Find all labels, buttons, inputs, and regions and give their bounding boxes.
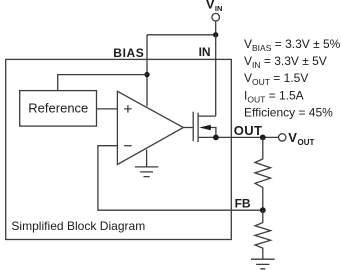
op-amp ground stub [146, 150, 148, 167]
transistor pass FET: body stub with jog to source [207, 128, 216, 138]
wire: bias feed to reference block [58, 75, 147, 91]
svg-text:FB: FB [235, 196, 251, 210]
wire: BIAS vertical into op-amp top [146, 35, 148, 107]
junction dot OUT/R1 [260, 135, 266, 141]
transistor pass FET: source stub [199, 136, 216, 138]
reference block [20, 91, 97, 127]
wire: IN vertical to FET drain [215, 35, 217, 116]
wire: reference output to op-amp + input [97, 108, 118, 110]
transistor pass FET: drain stub to IN [199, 115, 216, 117]
terminal VIN [212, 13, 220, 21]
outer box: simplified block diagram boundary [6, 59, 232, 239]
svg-text:VBIAS = 3.3V ± 5%: VBIAS = 3.3V ± 5% [244, 37, 341, 53]
resistor R1 [255, 137, 271, 210]
svg-text:VOUT = 1.5V: VOUT = 1.5V [244, 71, 308, 87]
svg-text:V: V [288, 130, 297, 145]
svg-text:OUT: OUT [234, 123, 263, 138]
resistor R2 [255, 210, 271, 259]
svg-text:V: V [206, 0, 215, 12]
transistor pass FET: gate bar [192, 112, 194, 142]
svg-text:Simplified Block Diagram: Simplified Block Diagram [11, 219, 145, 233]
wire: VIN terminal to junction [215, 21, 217, 35]
junction dot BIAS/reference feed [144, 72, 149, 77]
junction dot FET source/OUT [213, 135, 219, 141]
svg-text:BIAS: BIAS [113, 46, 144, 60]
svg-text:VIN = 3.3V ± 5V: VIN = 3.3V ± 5V [244, 54, 327, 70]
wire: BIAS horizontal [147, 34, 216, 36]
junction dot VIN/BIAS [213, 32, 218, 37]
svg-text:IOUT = 1.5A: IOUT = 1.5A [244, 88, 304, 104]
junction dot FB [260, 207, 266, 213]
wire OUT [216, 136, 279, 138]
wire: op-amp output to gate [183, 127, 192, 129]
ground (divider) [251, 259, 275, 269]
terminal VOUT [279, 134, 286, 141]
svg-text:IN: IN [215, 4, 223, 13]
transistor pass FET: body arrow [199, 125, 211, 131]
wire: feedback to op-amp - input [98, 146, 263, 211]
svg-text:IN: IN [199, 45, 211, 59]
ground (op-amp) [135, 167, 158, 177]
op-amp U1 [117, 91, 183, 164]
op-amp - input symbol [124, 145, 131, 147]
svg-text:Reference: Reference [28, 101, 88, 116]
svg-text:OUT: OUT [298, 138, 315, 147]
transistor pass FET: channel bar [197, 113, 199, 142]
op-amp + input symbol [124, 105, 131, 112]
svg-text:Efficiency = 45%: Efficiency = 45% [244, 106, 333, 120]
